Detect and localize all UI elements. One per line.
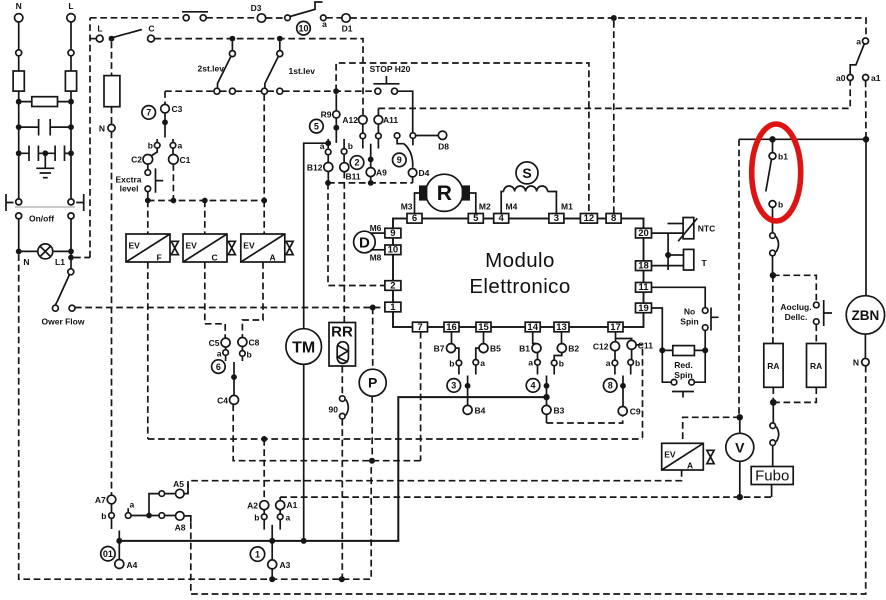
svg-text:C9: C9 xyxy=(630,407,641,417)
wire ZBN N return xyxy=(191,366,866,594)
wire C3 common stem xyxy=(164,113,166,138)
wire P bottom xyxy=(371,396,373,461)
svg-text:TM: TM xyxy=(292,339,315,356)
svg-text:RA: RA xyxy=(810,361,822,371)
wire B12 to pin2 xyxy=(328,183,385,286)
svg-text:level: level xyxy=(120,184,139,194)
svg-text:1: 1 xyxy=(390,302,396,313)
lamp L1 xyxy=(19,244,71,267)
node B3 xyxy=(542,405,565,415)
wire A2 feed xyxy=(263,439,265,501)
svg-text:D8: D8 xyxy=(438,142,449,152)
svg-text:a1: a1 xyxy=(871,73,881,83)
svg-text:Fubo: Fubo xyxy=(755,468,789,485)
wire EV C return to C5 xyxy=(205,262,225,338)
wire right border to ZBN xyxy=(865,139,867,295)
svg-text:L: L xyxy=(68,1,73,11)
svg-text:b1: b1 xyxy=(778,152,788,162)
junction dot B3 bus xyxy=(543,394,549,400)
junction dot stop tap xyxy=(333,88,339,94)
switch 10 xyxy=(285,2,327,29)
svg-text:A8: A8 xyxy=(175,523,186,533)
svg-text:B3: B3 xyxy=(554,406,565,416)
svg-text:a: a xyxy=(528,358,533,368)
junction dot RA join xyxy=(770,399,777,406)
node B1 xyxy=(519,332,541,360)
pin 4 xyxy=(494,213,509,224)
wire common stem 6 xyxy=(233,362,235,395)
label circled 3 xyxy=(447,379,461,393)
svg-text:a: a xyxy=(480,358,485,368)
svg-text:V: V xyxy=(735,440,745,456)
node N zbn xyxy=(853,334,869,367)
svg-text:9: 9 xyxy=(390,228,395,239)
wire choke to resistor row xyxy=(19,91,71,127)
wire L drop xyxy=(70,22,72,71)
junction dot stem 8 xyxy=(620,383,626,389)
junction dots capacitor row xyxy=(16,124,22,130)
node C1 xyxy=(169,155,191,166)
node C3 xyxy=(161,104,183,114)
node D1 xyxy=(342,14,353,34)
pin 18 xyxy=(636,261,652,272)
contact a of 1 xyxy=(277,510,290,530)
wire lamp to overflow switch xyxy=(70,251,72,268)
wire b chain to Aoclug switch xyxy=(773,275,816,302)
wire V tap to EV A right xyxy=(683,417,740,443)
wire D to pin9 xyxy=(371,232,385,234)
thermal contact below b xyxy=(770,207,779,275)
svg-text:b: b xyxy=(635,358,640,368)
solenoid valve EV F xyxy=(126,234,178,263)
wire RR bottom xyxy=(341,366,343,396)
pin 3 xyxy=(549,213,564,224)
node C11 aux xyxy=(0,0,1,1)
svg-text:L1: L1 xyxy=(55,257,65,267)
pin 17 xyxy=(608,322,623,333)
svg-text:B11: B11 xyxy=(346,172,361,182)
svg-text:a: a xyxy=(320,141,325,151)
wire TM feed from contact a5 xyxy=(304,143,329,329)
junction dot A9 harness xyxy=(368,180,374,186)
node A2 xyxy=(247,501,269,511)
wire B3 to C9 xyxy=(547,414,623,423)
junction dot EV A bottom bus xyxy=(261,436,267,442)
wire Fubo to y497 bus xyxy=(771,485,773,498)
svg-text:90: 90 xyxy=(329,405,339,415)
wire selector feed rail x90 xyxy=(89,18,91,258)
svg-text:STOP H20: STOP H20 xyxy=(370,64,411,74)
junction dot R9 stem xyxy=(333,125,339,131)
connector pin on L line xyxy=(68,50,74,56)
svg-text:Aoclug.: Aoclug. xyxy=(780,302,811,312)
resistor across lines xyxy=(19,97,71,107)
pin 14 xyxy=(525,322,540,333)
junction dot TM tap xyxy=(325,140,331,146)
junction dot stem 6 xyxy=(231,374,237,380)
pin 1 xyxy=(385,302,401,313)
svg-text:R9: R9 xyxy=(321,110,332,120)
wire main right feed y139 xyxy=(739,138,866,140)
svg-text:A5: A5 xyxy=(173,479,184,489)
contact a of 8 xyxy=(606,358,618,375)
wire C4 return xyxy=(233,404,420,460)
node B5 xyxy=(476,332,501,360)
svg-text:A3: A3 xyxy=(280,560,291,570)
svg-text:EV: EV xyxy=(129,241,141,251)
svg-text:10: 10 xyxy=(388,245,399,256)
wire pin8 to top rail xyxy=(613,21,615,214)
resistor RA1 xyxy=(764,344,783,388)
wire C3 drop xyxy=(164,91,166,104)
svg-text:b: b xyxy=(449,359,454,369)
svg-text:a: a xyxy=(286,513,291,523)
node A4 xyxy=(115,560,138,571)
svg-text:A4: A4 xyxy=(127,560,138,570)
wire harness right vertical x739 xyxy=(738,139,740,416)
svg-text:B4: B4 xyxy=(475,406,486,416)
svg-text:T: T xyxy=(702,258,708,268)
node B12 xyxy=(307,163,333,173)
junction dot C3 stem xyxy=(162,119,168,125)
switch Aoclug Dellc xyxy=(780,300,832,326)
svg-text:NTC: NTC xyxy=(698,224,715,234)
wire NTC vertical bus xyxy=(667,233,669,270)
pin 13 xyxy=(554,322,569,333)
node A1 xyxy=(276,497,298,510)
svg-text:C8: C8 xyxy=(249,338,260,348)
svg-text:18: 18 xyxy=(638,261,649,272)
svg-text:A7: A7 xyxy=(95,495,106,505)
pin 10 xyxy=(385,245,401,256)
junction dot RR branch on N bus xyxy=(339,576,345,582)
svg-text:b: b xyxy=(559,359,564,369)
svg-text:M8: M8 xyxy=(370,253,382,263)
wire A4 stub xyxy=(118,531,120,560)
svg-text:N: N xyxy=(853,358,859,368)
svg-text:8: 8 xyxy=(608,381,613,391)
wire EV F feed xyxy=(147,201,149,235)
contact a of A7 xyxy=(125,500,134,519)
junction dot A3 top xyxy=(269,538,275,544)
switch 90 thermal xyxy=(329,396,349,419)
switch L-C xyxy=(109,24,155,42)
node N selector xyxy=(99,107,115,134)
svg-text:S: S xyxy=(522,165,531,181)
pin 15 xyxy=(476,322,491,333)
svg-text:RA: RA xyxy=(767,361,779,371)
wire cap row down xyxy=(19,127,71,202)
wire EV C feed xyxy=(204,201,206,235)
wire pin11 to no spin xyxy=(652,287,706,307)
switch b1-b door xyxy=(766,139,788,209)
wire N selector down to A7 xyxy=(111,132,113,496)
svg-text:On/off: On/off xyxy=(29,214,54,224)
wire selector rail y91 xyxy=(165,90,375,92)
svg-text:C: C xyxy=(212,253,218,263)
svg-text:N: N xyxy=(16,1,22,11)
node C8 xyxy=(238,338,260,348)
svg-text:B7: B7 xyxy=(434,344,445,354)
svg-text:14: 14 xyxy=(527,322,538,333)
svg-text:EV: EV xyxy=(186,241,198,251)
svg-text:Dellc.: Dellc. xyxy=(785,312,808,322)
svg-text:M4: M4 xyxy=(506,202,518,212)
svg-text:A12: A12 xyxy=(342,115,358,125)
junction dot right border y139 xyxy=(863,136,869,142)
junction dots lamp row xyxy=(16,249,22,255)
svg-text:a0: a0 xyxy=(836,73,846,83)
wire stop h2o upper route xyxy=(336,63,589,214)
svg-text:C12: C12 xyxy=(593,342,609,352)
contact a of 4 xyxy=(528,358,540,375)
svg-text:1: 1 xyxy=(255,549,260,559)
wire A11 to a0 route xyxy=(378,81,850,109)
node A5 xyxy=(173,479,184,498)
svg-text:19: 19 xyxy=(638,303,649,314)
node B7 xyxy=(434,332,459,360)
contact a of 5 xyxy=(320,139,331,163)
pin 19 xyxy=(636,303,652,314)
wire B12 to harness edge xyxy=(327,172,329,183)
node B2 xyxy=(554,332,579,360)
junction dot A3 on N bus xyxy=(269,576,275,582)
voltmeter V xyxy=(726,433,754,461)
inductor choke L xyxy=(65,71,76,91)
svg-text:3: 3 xyxy=(554,213,559,224)
wire a1 down xyxy=(865,81,867,140)
capacitor to ground left xyxy=(19,146,46,162)
svg-text:Modulo: Modulo xyxy=(485,249,555,272)
wire C11 to bottom bus xyxy=(636,345,642,439)
svg-text:L: L xyxy=(97,24,102,34)
svg-text:b: b xyxy=(101,511,106,521)
solenoid valve EV C xyxy=(183,234,235,263)
svg-text:B5: B5 xyxy=(490,344,501,354)
label circled 01 xyxy=(101,547,115,561)
svg-text:RR: RR xyxy=(331,324,353,341)
wire common 3 to B4 xyxy=(467,376,469,406)
svg-text:M2: M2 xyxy=(479,202,491,212)
svg-text:1st.lev: 1st.lev xyxy=(289,66,316,76)
svg-text:A: A xyxy=(270,253,276,263)
switch STOP H20 xyxy=(370,64,411,94)
wire R9 stub xyxy=(335,94,337,111)
junction dot B12 harness xyxy=(325,180,331,186)
wire common 8 to C9 xyxy=(622,376,624,407)
svg-text:A11: A11 xyxy=(383,115,398,125)
solenoid valve EV A xyxy=(241,234,293,263)
node B11 xyxy=(340,163,361,182)
wire N choke branch xyxy=(111,42,113,76)
wire winding to pin4 xyxy=(501,192,503,214)
motor R xyxy=(419,174,470,211)
svg-text:a: a xyxy=(606,358,611,368)
junction dot A4 xyxy=(116,538,122,544)
node B4 xyxy=(463,405,486,415)
wire A8 link xyxy=(184,516,190,522)
svg-text:13: 13 xyxy=(556,322,567,333)
contact b of A7 xyxy=(101,504,114,529)
junction dot stem 4 xyxy=(544,383,550,389)
svg-text:15: 15 xyxy=(478,322,489,333)
junction dot T tap xyxy=(665,252,671,258)
thermistor NTC xyxy=(668,218,716,242)
wire A11 chain xyxy=(374,108,398,148)
svg-text:6: 6 xyxy=(412,213,417,224)
resistor RA2 xyxy=(807,344,826,388)
svg-text:b: b xyxy=(778,200,783,210)
capacitor to ground right xyxy=(45,146,71,162)
wire common 4 to B3 xyxy=(546,376,548,406)
junction dot stem 3 xyxy=(465,383,471,389)
junction dot top rail pin8 branch xyxy=(611,15,617,21)
svg-text:R: R xyxy=(437,182,452,205)
node L mains terminal xyxy=(67,1,75,22)
label circled 7 xyxy=(142,106,156,120)
svg-text:3: 3 xyxy=(451,381,456,391)
junction dots Y-cap row xyxy=(16,150,22,156)
wire A5 branch xyxy=(149,494,175,516)
junction dot A5 branch xyxy=(146,513,152,519)
svg-text:16: 16 xyxy=(446,322,457,333)
svg-text:5: 5 xyxy=(473,213,479,224)
connector pin on N line xyxy=(16,50,22,56)
wire C1 to EV bus xyxy=(172,164,174,200)
wire P top xyxy=(372,308,374,370)
node A8 xyxy=(175,512,186,533)
wire pin20 to NTC xyxy=(652,232,683,234)
wire to RA2 xyxy=(815,324,817,343)
svg-text:7: 7 xyxy=(417,322,422,333)
svg-text:EV: EV xyxy=(664,450,676,460)
svg-text:Elettronico: Elettronico xyxy=(469,275,570,298)
junction dot V on y497 xyxy=(737,494,743,500)
contact b of 4 xyxy=(551,359,564,375)
svg-text:A1: A1 xyxy=(287,500,298,510)
ground xyxy=(36,153,54,177)
wire RA bottoms join xyxy=(773,387,816,402)
svg-text:C2: C2 xyxy=(131,155,142,165)
svg-text:F: F xyxy=(157,253,162,263)
svg-text:a: a xyxy=(322,19,327,29)
wire A3 to N bus xyxy=(271,569,273,579)
svg-text:P: P xyxy=(368,375,377,391)
inductor S winding xyxy=(504,186,548,191)
wire V bottom xyxy=(739,461,741,497)
svg-text:Spin: Spin xyxy=(680,317,698,327)
label circled 6 xyxy=(212,360,226,374)
svg-text:M3: M3 xyxy=(401,202,413,212)
svg-text:A2: A2 xyxy=(247,501,258,511)
node D3 xyxy=(251,3,266,22)
wire EV A feed xyxy=(263,201,265,235)
motor TM xyxy=(286,329,322,365)
svg-text:N: N xyxy=(23,257,29,267)
svg-text:M6: M6 xyxy=(370,223,382,233)
svg-text:8: 8 xyxy=(611,213,616,224)
junction dot pin1 P tap xyxy=(370,305,376,311)
node A7 xyxy=(95,495,116,505)
switch 1st.lev xyxy=(261,42,315,95)
svg-text:2st.lev: 2st.lev xyxy=(198,64,225,74)
junction dots resistor row xyxy=(16,99,22,105)
node C9 xyxy=(618,407,641,417)
svg-text:C3: C3 xyxy=(172,104,183,114)
svg-text:b: b xyxy=(254,513,259,523)
junction dot V tap xyxy=(737,414,743,420)
junction dot red spin left xyxy=(659,347,665,353)
junction dot b1 tap xyxy=(769,136,775,142)
svg-text:C: C xyxy=(148,24,154,34)
contact b of 8 xyxy=(628,358,640,375)
pressure switch P xyxy=(359,369,386,396)
label circled 8 xyxy=(603,379,617,393)
junction dot 1st.lev tap xyxy=(277,36,283,42)
switch No Spin xyxy=(680,307,718,331)
node C11 xyxy=(616,339,654,360)
switch a-a0-a1 top right xyxy=(836,37,881,84)
junction dots EV bus xyxy=(145,198,151,204)
pin 16 xyxy=(444,322,459,333)
svg-text:2: 2 xyxy=(354,158,359,168)
module Modulo Elettronico xyxy=(393,219,644,328)
wire bottom dashed bus y439 xyxy=(148,438,643,440)
svg-text:a: a xyxy=(178,141,183,151)
red highlight ellipse xyxy=(752,124,801,221)
svg-text:Ower Flow: Ower Flow xyxy=(42,317,85,327)
svg-text:b: b xyxy=(148,141,153,151)
pin 12 xyxy=(580,213,597,224)
svg-text:5: 5 xyxy=(314,121,319,131)
pin 6 xyxy=(407,213,422,224)
wire harness edge y183 xyxy=(328,182,413,184)
node D8 xyxy=(416,131,450,151)
svg-text:B12: B12 xyxy=(307,163,323,173)
svg-text:N: N xyxy=(99,124,105,134)
contact b of 3 xyxy=(449,359,461,375)
svg-text:EV: EV xyxy=(243,241,255,251)
motor ZBN xyxy=(846,296,884,334)
switch Exctra level xyxy=(116,164,164,200)
wire motor to pin5 xyxy=(470,193,476,214)
junction dot P line on y460 xyxy=(369,458,375,464)
node C12 xyxy=(593,332,620,360)
wire Ower Flow to pin1 xyxy=(75,307,385,309)
relay RR xyxy=(329,323,356,367)
label circled 10 xyxy=(297,21,311,35)
pin 11 xyxy=(636,282,652,293)
wire STOP to switch9 xyxy=(398,91,413,133)
wire EV A return to C8 xyxy=(242,262,263,338)
contact b of 1 xyxy=(254,510,267,530)
wire 1st.lev to EV bus xyxy=(263,94,265,200)
label circled 5 xyxy=(310,119,324,133)
svg-text:17: 17 xyxy=(610,322,621,333)
heater Fubo xyxy=(751,467,793,485)
svg-text:B2: B2 xyxy=(568,344,579,354)
wire R9 common stem xyxy=(335,118,337,143)
node A3 xyxy=(268,560,291,570)
wire A9 chain xyxy=(366,144,387,183)
label circled 4 xyxy=(526,379,540,393)
wire A bus solid xyxy=(119,397,546,541)
inductor choke N selector xyxy=(104,76,120,107)
wire A5 link xyxy=(184,484,188,494)
svg-text:D3: D3 xyxy=(251,3,262,13)
svg-text:A9: A9 xyxy=(376,168,387,178)
junction dot TM bus xyxy=(301,538,307,544)
